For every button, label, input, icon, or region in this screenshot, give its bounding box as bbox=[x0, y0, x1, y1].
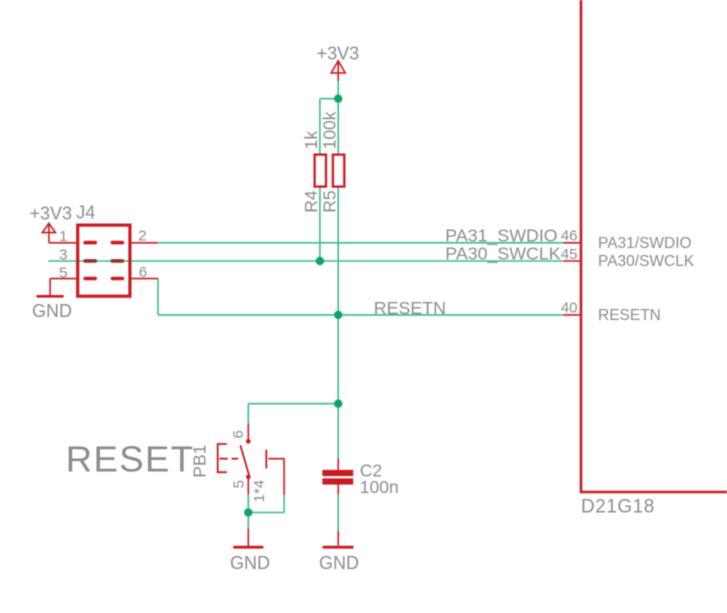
wire net RESETN vertical from J4 pin 6 bbox=[157, 279, 159, 315]
svg-text:RESETN: RESETN bbox=[374, 298, 446, 318]
wire +3V3 stem to junction bbox=[337, 81, 339, 99]
junction R5 to RESETN bbox=[334, 311, 342, 319]
J4 pin 5 stub bbox=[50, 278, 78, 280]
svg-text:1k: 1k bbox=[301, 131, 321, 150]
ground symbol at J4 bar bbox=[37, 295, 64, 298]
svg-text:GND: GND bbox=[230, 553, 270, 573]
svg-text:5: 5 bbox=[59, 264, 67, 281]
J4 contact pad row3 right bbox=[112, 277, 122, 281]
svg-text:RESETN: RESETN bbox=[598, 307, 661, 324]
power symbol +3V3 at J4 triangle bbox=[42, 223, 55, 232]
wire R4 bottom to SWCLK net bbox=[319, 188, 321, 261]
svg-text:3: 3 bbox=[59, 247, 67, 264]
overlap of SWCLK wire over row2 left pad bbox=[83, 260, 97, 262]
pushbutton PB1 plunger bracket bbox=[218, 444, 227, 472]
svg-text:GND: GND bbox=[32, 301, 72, 321]
wire down to switch pin 6 bbox=[247, 404, 249, 424]
wire R5 top branch bbox=[337, 99, 339, 154]
capacitor C2 top plate bbox=[322, 470, 353, 476]
junction R4 to SWCLK bbox=[316, 257, 324, 265]
capacitor C2 bottom plate bbox=[322, 478, 353, 484]
junction RESETN to C2 branch bbox=[334, 400, 342, 408]
wire net PA30_SWCLK horizontal bbox=[48, 260, 563, 262]
svg-text:6: 6 bbox=[230, 430, 247, 438]
ground symbol under switch bar bbox=[233, 546, 263, 549]
wire pin4 down green bbox=[283, 495, 285, 513]
pushbutton PB1 actuator arm bbox=[240, 445, 249, 476]
J4 pin 6 stub bbox=[130, 278, 158, 280]
IC U1 D21G18 outline bbox=[581, 0, 727, 492]
power symbol +3V3 top stem bbox=[337, 61, 339, 81]
svg-text:+3V3: +3V3 bbox=[30, 204, 73, 224]
wire +3V3 rail horizontal at top bbox=[320, 98, 338, 100]
pushbutton PB1 pin 6 stub bbox=[247, 423, 249, 441]
power symbol +3V3 top triangle bbox=[331, 61, 345, 73]
svg-text:+3V3: +3V3 bbox=[317, 43, 360, 63]
IC pin 46 stub bbox=[563, 242, 581, 244]
svg-text:R5: R5 bbox=[319, 190, 339, 212]
wire switch pin5 down bbox=[247, 495, 249, 529]
overlap of SWCLK wire over row2 right pad bbox=[111, 260, 125, 262]
svg-text:45: 45 bbox=[561, 246, 578, 263]
pushbutton PB1 pin 5 contact dot bbox=[246, 475, 251, 480]
J4 contact pad row2 right bbox=[112, 259, 122, 263]
svg-text:1: 1 bbox=[59, 228, 67, 245]
IC pin 40 stub bbox=[563, 314, 581, 316]
C2 GND stub bbox=[337, 531, 339, 546]
J4 pin 1 wire to +3V3 bbox=[49, 242, 78, 244]
ground symbol under C2 bar bbox=[323, 546, 354, 549]
J4 pin 2 stub bbox=[130, 242, 158, 244]
pushbutton PB1 second contact plate bbox=[265, 450, 267, 469]
svg-text:5: 5 bbox=[231, 480, 248, 488]
svg-text:PA31/SWDIO: PA31/SWDIO bbox=[598, 235, 692, 252]
svg-text:J4: J4 bbox=[76, 203, 95, 223]
wire switch top from RESETN junction bbox=[248, 403, 338, 405]
junction switch bottom bbox=[244, 508, 252, 516]
capacitor C2 top stub bbox=[337, 458, 339, 470]
svg-text:R4: R4 bbox=[301, 190, 321, 213]
J4 contact pad row1 right bbox=[112, 241, 122, 245]
capacitor C2 bottom stub bbox=[337, 485, 339, 495]
wire C2 to GND bbox=[337, 494, 339, 531]
wire net PA31_SWDIO horizontal bbox=[158, 242, 564, 244]
switch GND stub bbox=[247, 529, 249, 546]
J4 contact pad row2 left bbox=[85, 259, 95, 263]
svg-text:D21G18: D21G18 bbox=[581, 496, 655, 517]
svg-text:100k: 100k bbox=[319, 111, 339, 149]
pushbutton PB1 plunger dashed link bbox=[219, 458, 238, 460]
svg-text:RESET: RESET bbox=[66, 439, 195, 480]
svg-text:PA30/SWCLK: PA30/SWCLK bbox=[598, 253, 695, 270]
resistor R4 body bbox=[315, 155, 326, 187]
svg-text:2: 2 bbox=[138, 228, 146, 245]
svg-text:100n: 100n bbox=[360, 477, 399, 497]
svg-text:PA30_SWCLK: PA30_SWCLK bbox=[445, 244, 560, 265]
wire pin4 to pin5 bottom bbox=[248, 512, 284, 514]
J4 contact pad row3 left bbox=[85, 277, 95, 281]
wire R5 bottom to RESETN net and C2 bbox=[337, 188, 339, 459]
pushbutton PB1 pin 4 wire bbox=[268, 459, 284, 495]
junction at +3V3 rail bbox=[334, 95, 342, 103]
svg-text:46: 46 bbox=[561, 228, 578, 245]
svg-text:40: 40 bbox=[561, 300, 578, 317]
IC pin 45 stub bbox=[563, 260, 581, 262]
svg-text:GND: GND bbox=[319, 553, 359, 573]
svg-text:6: 6 bbox=[139, 264, 147, 281]
connector J4 body bbox=[78, 225, 130, 296]
J4 pin 5 wire down to GND bbox=[49, 279, 51, 296]
pushbutton PB1 pin 5 stub bbox=[247, 477, 249, 495]
wire R4 top branch bbox=[319, 99, 321, 154]
pushbutton PB1 pin 6 contact dot bbox=[246, 439, 251, 444]
wire net RESETN horizontal bbox=[158, 314, 563, 316]
resistor R5 body bbox=[333, 155, 344, 187]
J4 contact pad row1 left bbox=[85, 241, 95, 245]
power symbol +3V3 at J4 stem bbox=[48, 223, 50, 243]
svg-text:1*4: 1*4 bbox=[251, 480, 268, 503]
